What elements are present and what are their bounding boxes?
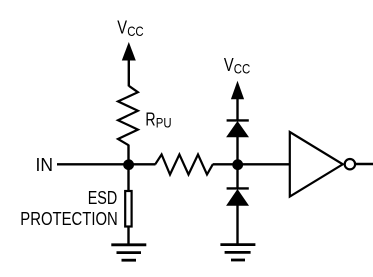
svg-text:PROTECTION: PROTECTION bbox=[20, 208, 118, 229]
junction node A bbox=[123, 159, 134, 170]
wire IN to node A bbox=[57, 163, 129, 165]
power VCC arrow symbol (clamp) bbox=[231, 81, 244, 121]
wire node B to inverter input bbox=[238, 163, 291, 165]
svg-text:V: V bbox=[117, 16, 127, 37]
label ESD PROTECTION bbox=[20, 187, 118, 229]
diode D2 (clamp to ground) bbox=[226, 188, 249, 205]
wire node A to series resistor bbox=[129, 163, 156, 165]
label VCC (pull-up supply) bbox=[117, 16, 143, 39]
svg-text:CC: CC bbox=[127, 23, 144, 39]
wire inverter output bbox=[355, 163, 373, 165]
wire series resistor to node B bbox=[213, 163, 238, 165]
svg-text:R: R bbox=[145, 108, 155, 129]
diode D1 (clamp to VCC) bbox=[226, 120, 249, 137]
series resistor (horizontal) bbox=[155, 155, 213, 175]
inverter U1 output bubble bbox=[345, 159, 355, 169]
wire D2 to ground bbox=[236, 205, 238, 245]
svg-text:V: V bbox=[224, 54, 234, 75]
power VCC arrow symbol (pull-up) bbox=[122, 42, 136, 86]
wire resistor to ESD box through node A bbox=[127, 145, 129, 191]
label VCC (clamp supply) bbox=[224, 54, 250, 77]
wire ESD box to ground bbox=[127, 228, 129, 246]
wire D1 to D2 through node B bbox=[236, 136, 238, 190]
label RPU bbox=[145, 108, 171, 130]
svg-text:ESD: ESD bbox=[88, 187, 118, 208]
resistor RPU bbox=[118, 86, 138, 145]
ESD protection device box bbox=[125, 191, 131, 227]
junction node B bbox=[232, 159, 243, 170]
svg-text:IN: IN bbox=[36, 154, 54, 175]
ground (clamp) bbox=[220, 245, 255, 260]
inverter U1 triangle bbox=[290, 132, 343, 197]
ground (ESD) bbox=[111, 245, 146, 260]
svg-text:PU: PU bbox=[156, 115, 172, 131]
svg-text:CC: CC bbox=[234, 61, 251, 77]
